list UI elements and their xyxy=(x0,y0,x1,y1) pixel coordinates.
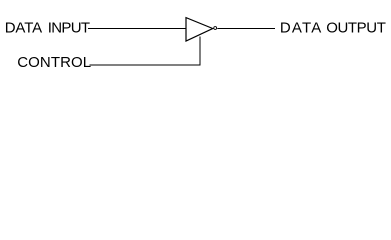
inversion bubble on U1 output xyxy=(214,27,217,30)
wire control horizontal xyxy=(90,64,201,66)
wire data output xyxy=(217,28,275,30)
tri-state inverter U1 triangle xyxy=(186,18,213,41)
wire data input xyxy=(88,28,186,30)
wire control vertical (enable into U1) xyxy=(199,37,201,66)
svg-text:CONTROL: CONTROL xyxy=(17,54,91,71)
svg-text:DATAINPUT: DATAINPUT xyxy=(5,20,90,37)
svg-text:DATAOUTPUT: DATAOUTPUT xyxy=(280,20,386,37)
